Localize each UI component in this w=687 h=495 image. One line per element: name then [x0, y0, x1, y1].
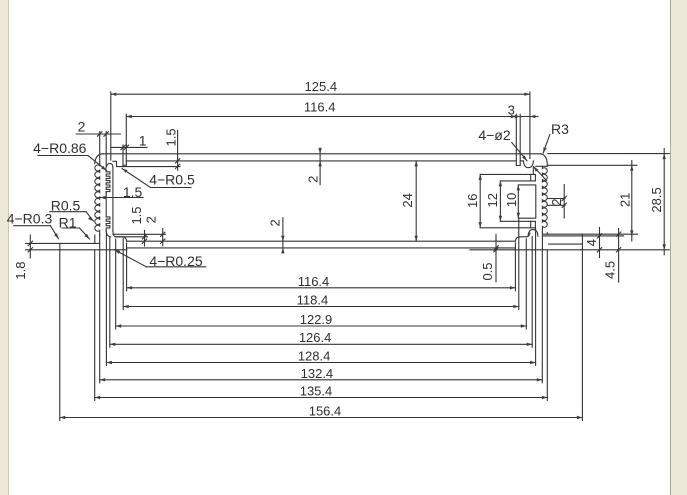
svg-text:132.4: 132.4 [301, 366, 334, 381]
svg-text:2: 2 [143, 216, 158, 223]
svg-text:118.4: 118.4 [297, 292, 329, 307]
svg-text:116.4: 116.4 [298, 274, 330, 289]
svg-text:1.5: 1.5 [129, 206, 144, 224]
svg-text:128.4: 128.4 [298, 348, 331, 363]
svg-text:116.4: 116.4 [304, 100, 336, 115]
svg-text:2: 2 [268, 219, 283, 226]
svg-text:4−ø2: 4−ø2 [478, 127, 511, 143]
svg-text:1.5: 1.5 [123, 184, 143, 200]
svg-text:10: 10 [504, 193, 519, 207]
svg-text:1.8: 1.8 [13, 262, 28, 280]
svg-text:122.9: 122.9 [300, 312, 333, 327]
svg-text:R0.5: R0.5 [51, 198, 81, 214]
svg-text:4−R0.5: 4−R0.5 [149, 172, 195, 188]
svg-text:R3: R3 [551, 121, 569, 137]
svg-text:R1: R1 [59, 215, 77, 231]
svg-text:12: 12 [485, 193, 500, 207]
svg-text:0.5: 0.5 [480, 262, 495, 280]
svg-text:2: 2 [549, 198, 564, 205]
svg-text:4: 4 [584, 239, 599, 246]
svg-text:126.4: 126.4 [299, 330, 332, 345]
svg-text:3: 3 [508, 102, 515, 117]
svg-text:4−R0.3: 4−R0.3 [7, 211, 53, 227]
svg-text:2: 2 [305, 176, 320, 183]
svg-text:1: 1 [139, 133, 147, 149]
svg-text:28.5: 28.5 [649, 187, 664, 212]
svg-text:4−R0.25: 4−R0.25 [149, 253, 203, 269]
svg-text:4−R0.86: 4−R0.86 [33, 140, 87, 156]
svg-text:135.4: 135.4 [300, 383, 333, 398]
svg-text:1.5: 1.5 [163, 128, 178, 146]
svg-text:4.5: 4.5 [603, 261, 618, 279]
svg-text:2: 2 [78, 119, 86, 135]
svg-text:21: 21 [618, 193, 633, 207]
svg-text:24: 24 [400, 193, 415, 207]
svg-text:156.4: 156.4 [309, 403, 342, 418]
svg-text:125.4: 125.4 [305, 79, 338, 94]
svg-text:16: 16 [465, 194, 480, 208]
